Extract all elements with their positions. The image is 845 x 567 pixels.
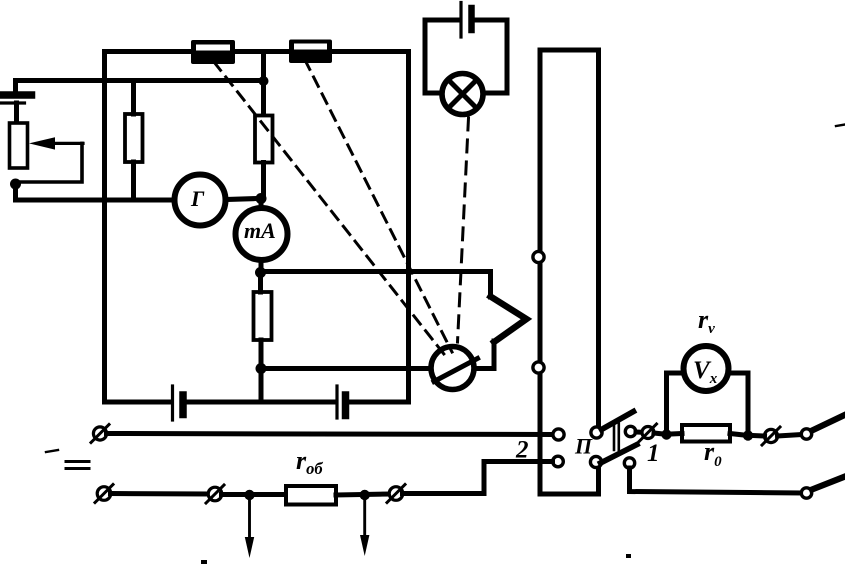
wire: box bottom edge segment 2 (187, 400, 335, 405)
battery B1 (external source, top-left) (0, 81, 32, 124)
svg-text:rоб: rоб (296, 446, 323, 478)
switch П: right contacts (625, 426, 635, 436)
switch П: link bars (614, 424, 619, 451)
wire: bottom right run (630, 468, 802, 493)
terminal &#8960; lower 2 (206, 485, 224, 503)
terminal: scale lower (533, 362, 544, 373)
beam pointer (chevron to scale) (475, 297, 527, 369)
wire (336, 494, 390, 495)
resistor R3 (vertical, left branch) (125, 81, 143, 201)
terminal: panel input 2a (553, 429, 564, 440)
wire: box bottom edge segment 3 (349, 400, 409, 405)
svg-text:rv: rv (698, 305, 715, 337)
wire: source feed to box (16, 78, 264, 83)
speck (right margin tick) (836, 125, 845, 127)
label = (DC source) (66, 462, 89, 469)
terminal &#8960; lower 1 (95, 485, 113, 503)
wire: upper input run (107, 434, 553, 435)
node: tap arrow 2 (360, 490, 370, 500)
milliammeter mA (236, 199, 288, 261)
rheostat R (variable resistor with tap arrow) (10, 123, 84, 182)
battery B3 (right, in box bottom) (337, 386, 346, 418)
svg-text:П: П (574, 434, 593, 459)
wire (111, 491, 209, 497)
terminal &#8960; right (762, 427, 780, 445)
voltmeter loop (667, 373, 749, 436)
node: r0 left junction (661, 429, 671, 439)
wire (753, 435, 802, 437)
resistor R5 (vertical, lower branch) (254, 273, 272, 369)
lamp unit box (425, 20, 507, 93)
terminal &#8960; upper-left (91, 425, 109, 443)
switch П: blades (601, 412, 638, 464)
battery B2 (left, in box bottom) (173, 386, 184, 420)
wire: box bottom edge segment 1 (105, 400, 171, 405)
light ray (dashed) from R2 to mirror (305, 60, 452, 352)
terminal &#8960; lower 3 (387, 485, 405, 503)
arrow tap 1 (245, 499, 254, 558)
scale panel (540, 50, 599, 494)
speck (caption remnant left) (201, 560, 207, 564)
wire: lower source wire to galvanometer (16, 184, 175, 200)
device box (potentiometer unit) (105, 52, 409, 403)
light ray (dashed) from lamp L1 to mirror (458, 118, 469, 342)
arrow tap 2 (360, 499, 369, 556)
node: below mA (255, 267, 266, 278)
wire (654, 433, 663, 434)
terminal &#8960; (point 1) (640, 424, 657, 441)
resistor R2 (top shunt, right) (289, 40, 332, 64)
node: r0 right junction (743, 430, 753, 440)
speck (dash left of =) (46, 450, 58, 452)
lamp L1 (442, 74, 483, 115)
switch: bottom right (801, 477, 845, 499)
speck (caption remnant right) (626, 554, 631, 558)
wire: beam pointer top run (261, 272, 491, 298)
battery B4 (lamp unit) (461, 3, 472, 38)
wire (636, 430, 642, 435)
terminal: panel input 2b (553, 456, 564, 467)
node: feed junction (259, 76, 269, 86)
resistor r0 (671, 425, 744, 442)
voltmeter Vx (684, 346, 729, 391)
node: rheostat tap junction (10, 179, 21, 190)
light ray (dashed) from R1 to mirror (214, 62, 447, 358)
galvanometer G (175, 175, 226, 226)
switch: top right (801, 416, 843, 440)
galvanometer lamp with mirror (431, 347, 478, 390)
node: tap arrow 1 (244, 490, 254, 500)
resistor r_ob (286, 486, 336, 505)
node: lower junction (256, 363, 267, 374)
switch П: left contacts (591, 427, 602, 438)
svg-text:тА: тА (244, 218, 276, 243)
wire: tap vertical from top edge (261, 52, 266, 116)
resistor R4 (vertical, middle branch) (255, 116, 273, 199)
wire: G to junction (226, 199, 259, 200)
svg-text:1: 1 (647, 440, 660, 467)
resistor R1 (top shunt, left) (191, 40, 235, 64)
node: above mA (256, 193, 267, 204)
terminal: scale upper (533, 251, 544, 262)
wire (222, 492, 287, 497)
wire: lower input step to panel (403, 462, 553, 494)
wire: junction to lamp (261, 366, 432, 371)
svg-text:Г: Г (190, 186, 205, 211)
